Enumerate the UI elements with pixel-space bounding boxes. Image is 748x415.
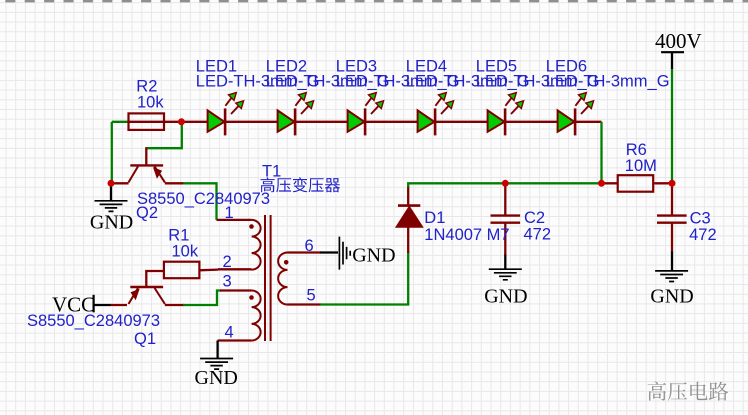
LED LED5	[476, 58, 600, 136]
wire	[208, 121, 602, 123]
junction	[598, 180, 605, 187]
wire	[111, 122, 113, 184]
svg-text:6: 6	[305, 237, 314, 255]
svg-text:GND: GND	[352, 245, 395, 267]
polarity dot pin3	[249, 295, 254, 300]
node VCC	[52, 293, 95, 317]
svg-text:400V: 400V	[655, 29, 702, 53]
wire	[218, 268, 252, 270]
LED LED4	[406, 58, 530, 136]
junction	[108, 180, 115, 187]
svg-text:10M: 10M	[625, 157, 657, 175]
ground	[195, 359, 238, 390]
wire	[218, 339, 252, 341]
svg-text:C2: C2	[524, 209, 545, 227]
junction	[669, 180, 676, 187]
polarity dot pin1	[249, 224, 254, 229]
svg-text:4: 4	[225, 324, 234, 342]
wire	[164, 121, 208, 123]
svg-text:GND: GND	[650, 285, 693, 307]
capacitor C2	[491, 209, 552, 243]
ground	[339, 237, 395, 270]
svg-text:10k: 10k	[172, 242, 199, 260]
svg-text:5: 5	[307, 287, 316, 305]
transistor Q1	[27, 287, 165, 348]
wire	[288, 303, 322, 305]
svg-text:472: 472	[524, 225, 552, 243]
wire	[220, 289, 252, 291]
wire	[129, 121, 164, 123]
wire	[600, 122, 602, 184]
wire	[504, 183, 506, 215]
wire	[288, 251, 322, 253]
svg-text:T1: T1	[262, 163, 281, 181]
wire	[146, 271, 164, 288]
wire	[671, 52, 673, 69]
LED LED2	[266, 58, 390, 136]
wire	[602, 182, 618, 184]
wire	[110, 183, 112, 200]
svg-text:Q1: Q1	[134, 330, 156, 348]
wire	[112, 182, 129, 184]
svg-text:1: 1	[225, 204, 234, 222]
wire	[654, 182, 672, 184]
wire	[94, 304, 111, 306]
wire	[183, 291, 221, 306]
transistor Q2	[129, 165, 271, 222]
wire	[504, 223, 506, 255]
wire	[407, 227, 409, 253]
junction	[178, 118, 185, 125]
svg-text:3: 3	[223, 273, 232, 291]
wire	[146, 122, 182, 148]
ground	[650, 271, 693, 307]
resistor R2	[129, 78, 165, 130]
diode D1	[396, 206, 509, 244]
wire	[165, 182, 184, 184]
capacitor C3	[657, 210, 717, 244]
LED LED3	[336, 58, 460, 136]
wire	[671, 68, 673, 183]
svg-text:VCC: VCC	[52, 293, 95, 317]
ground	[90, 201, 133, 234]
junction	[502, 180, 509, 187]
wire	[217, 219, 252, 221]
svg-text:C3: C3	[690, 210, 711, 228]
wire	[165, 304, 184, 306]
svg-text:10k: 10k	[137, 94, 164, 112]
svg-text:1N4007 M7: 1N4007 M7	[424, 226, 509, 244]
svg-text:LED-TH-3mm_G: LED-TH-3mm_G	[546, 73, 670, 91]
wire	[111, 304, 128, 306]
svg-text:GND: GND	[484, 286, 527, 308]
wire	[183, 183, 217, 220]
title 高压电路	[648, 382, 729, 401]
wire	[199, 268, 219, 271]
wire	[408, 183, 601, 187]
node 400V	[655, 29, 702, 53]
LED LED6	[546, 58, 670, 136]
svg-text:D1: D1	[424, 209, 445, 227]
label 高压变压器	[261, 177, 341, 192]
svg-text:2: 2	[223, 253, 232, 271]
svg-text:GND: GND	[195, 367, 238, 389]
transformer T1	[223, 163, 341, 342]
wire	[145, 147, 147, 164]
resistor R6	[618, 141, 657, 192]
wire	[407, 186, 409, 206]
svg-text:Q2: Q2	[136, 204, 158, 222]
wire	[112, 121, 129, 123]
polarity dot pin6	[284, 260, 289, 265]
LED LED1	[196, 58, 320, 136]
svg-text:472: 472	[689, 226, 717, 244]
wire	[671, 222, 673, 253]
wire	[671, 252, 673, 271]
wire	[504, 255, 506, 270]
wire	[320, 252, 408, 305]
resistor R1	[164, 226, 200, 278]
svg-text:GND: GND	[90, 212, 133, 234]
wire	[671, 183, 673, 215]
wire	[216, 341, 218, 359]
ground	[484, 269, 527, 307]
wire	[320, 251, 338, 253]
